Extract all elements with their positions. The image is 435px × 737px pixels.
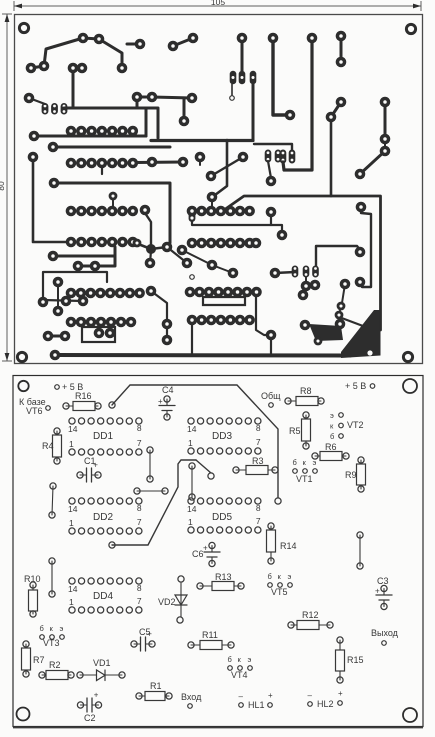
svg-text:б: б — [228, 655, 232, 664]
svg-text:–: – — [239, 692, 244, 701]
svg-text:+: + — [94, 691, 99, 700]
svg-text:DD5: DD5 — [212, 512, 232, 523]
svg-text:7: 7 — [137, 517, 142, 527]
svg-text:Выход: Выход — [371, 628, 399, 638]
svg-text:+ 5 В: + 5 В — [345, 381, 366, 391]
svg-text:VT6: VT6 — [26, 406, 43, 416]
svg-text:1: 1 — [69, 518, 74, 528]
svg-text:Вход: Вход — [181, 692, 202, 702]
svg-text:э: э — [248, 655, 252, 664]
svg-text:105: 105 — [211, 0, 225, 7]
svg-text:б: б — [268, 572, 272, 581]
svg-text:+: + — [375, 587, 380, 596]
svg-text:7: 7 — [256, 437, 261, 447]
svg-text:R3: R3 — [252, 456, 264, 466]
svg-text:+: + — [158, 397, 163, 406]
svg-text:б: б — [330, 432, 334, 441]
svg-text:DD1: DD1 — [93, 431, 113, 442]
svg-text:R5: R5 — [289, 426, 301, 436]
svg-text:HL1: HL1 — [248, 700, 265, 710]
svg-text:1: 1 — [69, 597, 74, 607]
svg-text:R1: R1 — [150, 681, 162, 691]
svg-text:14: 14 — [68, 504, 78, 514]
svg-text:VD1: VD1 — [93, 658, 111, 668]
svg-text:C2: C2 — [84, 713, 96, 723]
svg-text:VD2: VD2 — [158, 597, 176, 607]
svg-text:C1: C1 — [84, 456, 96, 466]
svg-text:–: – — [308, 691, 313, 700]
svg-text:14: 14 — [68, 424, 78, 434]
svg-text:+: + — [203, 544, 208, 553]
svg-text:VT2: VT2 — [347, 420, 364, 430]
svg-text:VT5: VT5 — [271, 587, 288, 597]
svg-text:DD2: DD2 — [93, 512, 113, 523]
svg-text:б: б — [40, 624, 44, 633]
svg-text:C3: C3 — [377, 576, 389, 586]
svg-text:7: 7 — [137, 596, 142, 606]
svg-text:э: э — [330, 411, 334, 420]
svg-text:R6: R6 — [325, 442, 337, 452]
svg-text:э: э — [288, 572, 292, 581]
svg-text:14: 14 — [187, 504, 197, 514]
svg-text:80: 80 — [0, 181, 6, 191]
svg-text:б: б — [293, 458, 297, 467]
svg-text:VT4: VT4 — [231, 670, 248, 680]
svg-text:1: 1 — [188, 438, 193, 448]
svg-text:VT1: VT1 — [296, 474, 313, 484]
svg-text:э: э — [60, 624, 64, 633]
svg-text:R13: R13 — [215, 572, 232, 582]
svg-text:7: 7 — [256, 516, 261, 526]
svg-text:C4: C4 — [162, 385, 174, 395]
svg-text:R8: R8 — [300, 386, 312, 396]
svg-text:R11: R11 — [202, 630, 218, 640]
svg-text:14: 14 — [187, 424, 197, 434]
svg-text:1: 1 — [69, 439, 74, 449]
svg-text:R16: R16 — [75, 391, 92, 401]
svg-text:C6: C6 — [192, 549, 204, 559]
svg-text:R4: R4 — [42, 441, 54, 451]
svg-text:C5: C5 — [139, 627, 151, 637]
svg-text:1: 1 — [188, 517, 193, 527]
svg-text:R12: R12 — [302, 610, 319, 620]
svg-text:14: 14 — [68, 584, 78, 594]
svg-text:7: 7 — [137, 438, 142, 448]
svg-text:R9: R9 — [345, 470, 357, 480]
svg-text:+: + — [268, 691, 273, 700]
svg-text:R7: R7 — [33, 655, 45, 665]
svg-text:R14: R14 — [280, 541, 297, 551]
svg-text:DD3: DD3 — [212, 431, 232, 442]
svg-text:R2: R2 — [49, 660, 61, 670]
svg-text:HL2: HL2 — [317, 699, 334, 709]
svg-text:+: + — [338, 689, 343, 698]
svg-text:R15: R15 — [347, 655, 364, 665]
svg-text:Общ: Общ — [261, 391, 281, 401]
svg-text:DD4: DD4 — [93, 591, 113, 602]
